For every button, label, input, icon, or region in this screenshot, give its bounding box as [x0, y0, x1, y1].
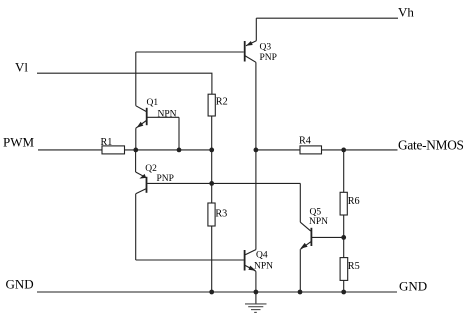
junction R3 at ground row: [209, 290, 214, 295]
node GND left label: [6, 277, 34, 292]
svg-text:Vl: Vl: [15, 60, 28, 75]
junction R6 tap: [341, 148, 346, 153]
wire R1 to node row: [125, 149, 212, 151]
wire Q2 emitter riser: [135, 150, 137, 172]
svg-text:PNP: PNP: [260, 53, 277, 63]
node Vl label: [15, 60, 28, 75]
wire R6 drop: [343, 150, 345, 192]
node Vh label: [398, 5, 414, 20]
svg-text:NPN: NPN: [254, 262, 273, 272]
resistor R6: [340, 192, 359, 215]
wire R2 to R3: [211, 116, 213, 203]
wire Q1 collector vertical: [135, 52, 137, 106]
wire R4 row left: [256, 149, 300, 151]
wire Q5 base line: [311, 236, 344, 238]
junction base row at R2/R3 rail: [209, 181, 214, 186]
wire Q1 emitter drop: [135, 128, 137, 150]
svg-text:PNP: PNP: [157, 174, 174, 184]
svg-text:R5: R5: [348, 261, 360, 272]
wire Q2 collector drop: [135, 194, 137, 260]
svg-text:R2: R2: [216, 96, 228, 107]
svg-text:GND: GND: [399, 279, 427, 294]
junction at Q1/Q2 emitters: [133, 148, 138, 153]
svg-text:PWM: PWM: [3, 135, 35, 150]
transistor Q3: [244, 41, 277, 63]
transistor Q2: [136, 164, 174, 194]
transistor Q4: [244, 250, 273, 272]
node GND right label: [399, 279, 427, 294]
svg-text:Q1: Q1: [147, 98, 159, 108]
svg-text:R6: R6: [348, 196, 360, 207]
transistor Q1: [136, 98, 177, 128]
svg-text:R4: R4: [299, 136, 311, 147]
resistor R3: [208, 203, 227, 226]
junction at base drop: [177, 148, 182, 153]
wire R3 to ground row: [211, 226, 213, 292]
resistor R2: [208, 94, 228, 116]
svg-text:NPN: NPN: [309, 217, 328, 227]
svg-text:GND: GND: [6, 277, 34, 292]
wire junction to R5: [343, 237, 345, 257]
junction Q4 emitter at ground row: [254, 290, 259, 295]
wire Q2 collector to Q4 base: [136, 259, 244, 261]
resistor R4: [299, 136, 322, 154]
transistor Q5: [300, 208, 328, 250]
wire PWM input: [38, 149, 102, 151]
wire Q3 base line: [136, 51, 244, 53]
node PWM label: [3, 135, 35, 150]
wire Q5 emitter drop: [299, 249, 301, 292]
ground: [245, 292, 267, 312]
svg-text:Q2: Q2: [145, 164, 157, 174]
junction R5 at ground row: [341, 290, 346, 295]
junction collector rail at R4 row: [254, 148, 259, 153]
junction below R2: [209, 148, 214, 153]
wire R6 to junction: [343, 215, 345, 237]
svg-text:R1: R1: [101, 137, 113, 148]
wire Q5 collector riser: [299, 183, 301, 222]
junction R6/R5/Q5 base: [341, 235, 346, 240]
resistor R1: [101, 137, 125, 154]
svg-text:Q3: Q3: [260, 43, 272, 53]
wire Vh rail: [256, 17, 398, 19]
node Gate-NMOS label: [398, 138, 464, 153]
wire Q1 base drop: [178, 117, 180, 150]
svg-text:Gate-NMOS: Gate-NMOS: [398, 138, 464, 153]
wire Q3 collector rail: [255, 62, 257, 249]
wire Vl line: [37, 73, 212, 94]
svg-text:Q4: Q4: [256, 251, 268, 261]
svg-text:R3: R3: [215, 209, 227, 220]
svg-text:Vh: Vh: [398, 5, 414, 20]
wire Q1 base line: [147, 116, 179, 118]
wire ground row: [37, 291, 397, 293]
wire Vh drop to Q3 emitter: [255, 18, 257, 41]
wire R5 to ground row: [343, 280, 345, 292]
resistor R5: [340, 258, 360, 281]
wire Q2 base to Q5 collector row: [147, 182, 300, 184]
wire R4 to Gate-NMOS: [322, 149, 398, 151]
wire Q4 emitter drop: [255, 271, 257, 292]
junction Q5 emitter at ground row: [298, 290, 303, 295]
